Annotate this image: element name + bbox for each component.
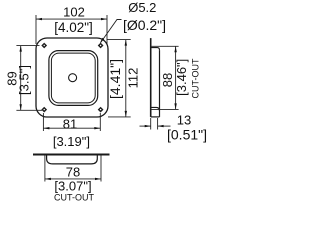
- svg-text:CUT-OUT: CUT-OUT: [190, 58, 200, 98]
- svg-text:88: 88: [160, 73, 175, 87]
- svg-text:81: 81: [63, 117, 77, 132]
- dimension 13 depth: left arrow shaft: [140, 125, 151, 127]
- side view: dish back line: [159, 50, 161, 117]
- svg-text:[3.07"]: [3.07"]: [54, 179, 91, 194]
- dimension 88 cut-out: dimension line: [175, 46, 177, 109]
- mounting hole top-right (Ø5.2): [98, 43, 104, 49]
- dimension 78 cut-out: left arrowhead: [45, 178, 51, 180]
- svg-text:[0.51"]: [0.51"]: [167, 127, 207, 143]
- dimension 89: bottom arrowhead: [20, 104, 22, 110]
- dimension 112: top extension line: [107, 39, 131, 41]
- svg-text:112: 112: [125, 68, 140, 89]
- svg-text:CUT-OUT: CUT-OUT: [54, 193, 94, 203]
- dimension 88 cut-out: bottom arrowhead: [174, 103, 176, 109]
- svg-text:[4.41"]: [4.41"]: [107, 59, 123, 99]
- bottom cut-out view: panel surface line: [33, 154, 110, 156]
- svg-text:[Ø0.2"]: [Ø0.2"]: [123, 17, 166, 33]
- dimension 89: dimension line: [20, 46, 22, 111]
- hole callout: leader line to top-right mounting hole: [101, 20, 122, 43]
- dimension 78 cut-out: right arrowhead: [95, 178, 101, 180]
- dimension 102: left arrowhead: [36, 18, 42, 20]
- dimension 13 depth: right extension line: [157, 118, 159, 130]
- dimension 81: right arrowhead: [94, 127, 100, 129]
- side view: panel face line: [150, 38, 152, 117]
- dimension 78 cut-out: right extension line: [100, 156, 102, 182]
- dimension 81: left arrowhead: [43, 127, 49, 129]
- bottom cut-out view: dish trough outline: [47, 155, 98, 164]
- recess dish outer edge (front view): [49, 51, 98, 106]
- front view: recessed dish panel outline: [36, 38, 108, 117]
- dimension 81: left extension line: [42, 113, 44, 131]
- dimension 78 cut-out: dimension line: [45, 178, 101, 180]
- dimension 13 depth: left extension line: [150, 118, 152, 130]
- dimension 81: right extension line: [99, 113, 101, 131]
- dimension 112: top arrowhead: [125, 40, 127, 46]
- svg-text:[4.02"]: [4.02"]: [54, 20, 93, 35]
- svg-text:102: 102: [63, 4, 85, 19]
- dimension 88 cut-out: top arrowhead: [174, 46, 176, 52]
- svg-text:[3.19"]: [3.19"]: [53, 134, 90, 149]
- svg-text:Ø5.2: Ø5.2: [128, 0, 156, 15]
- side view: dish bottom wall: [151, 107, 160, 111]
- dimension 102: right extension line: [106, 15, 108, 45]
- dimension 88 cut-out: top extension line: [151, 45, 179, 47]
- dimension 102: dimension line: [36, 18, 107, 20]
- dimension 112: dimension line: [125, 40, 127, 117]
- dimension 102: right arrowhead: [101, 18, 107, 20]
- svg-text:[3.5"]: [3.5"]: [17, 65, 32, 95]
- recess dish inner edge (front view): [51, 53, 95, 103]
- center hole: [69, 74, 77, 82]
- dimension 13 depth: right arrowhead: [158, 125, 164, 127]
- dimension 89: top arrowhead: [20, 46, 22, 52]
- dimension 78 cut-out: left extension line: [44, 156, 46, 182]
- svg-text:13: 13: [177, 113, 191, 128]
- svg-text:[3.46"]: [3.46"]: [174, 59, 189, 96]
- svg-text:78: 78: [66, 165, 80, 180]
- dimension 89: top extension line: [16, 45, 39, 47]
- side view: bottom edge: [151, 116, 160, 118]
- dimension 112: bottom extension line: [108, 116, 131, 118]
- mounting hole top-left (Ø5.2): [41, 43, 47, 49]
- dimension 13 depth: left arrowhead: [145, 125, 151, 127]
- dimension 112: bottom arrowhead: [125, 111, 127, 117]
- dimension 88 cut-out: bottom extension line: [151, 108, 179, 110]
- dimension 89: bottom extension line: [16, 109, 42, 111]
- side view: dish top wall: [151, 48, 160, 51]
- mounting hole bottom-left (Ø5.2): [41, 107, 47, 113]
- hole callout: leader arrowhead: [100, 38, 104, 44]
- dimension 81: dimension line: [43, 127, 100, 129]
- dimension 102: left extension line: [35, 15, 37, 44]
- dimension 13 depth: right arrow shaft: [158, 125, 171, 127]
- mounting hole bottom-right (Ø5.2): [98, 107, 104, 113]
